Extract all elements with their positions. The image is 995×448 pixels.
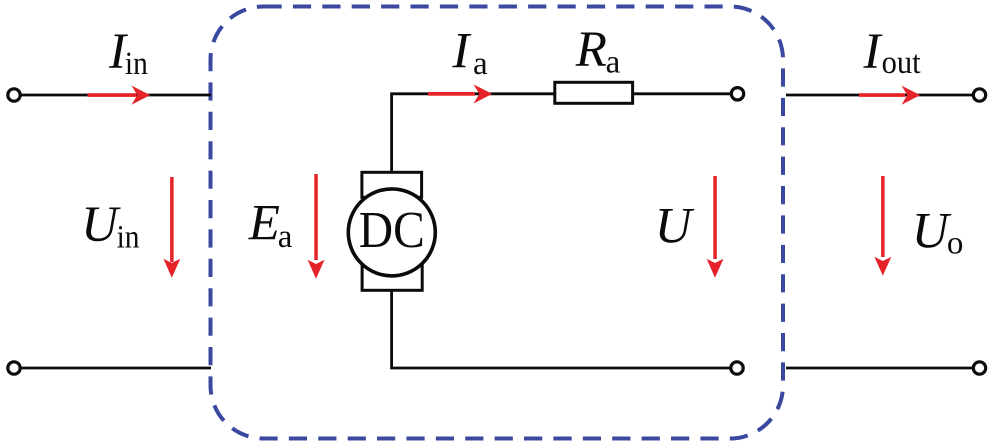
svg-text:I: I	[863, 24, 883, 80]
svg-text:DC: DC	[359, 202, 425, 259]
voltage arrow Uo	[874, 176, 891, 276]
terminal node: output bottom	[973, 362, 985, 374]
svg-text:a: a	[606, 45, 621, 81]
DC machine circle U1	[348, 189, 435, 276]
svg-text:in: in	[117, 220, 140, 256]
wire: bottom-left input wire	[21, 367, 212, 370]
wire: top-left input wire	[21, 94, 212, 97]
resistor Ra body	[555, 82, 633, 103]
svg-text:U: U	[81, 197, 121, 253]
terminal node: internal bottom right	[731, 362, 743, 374]
wire: internal top wire from DC machine to right terminal	[392, 94, 732, 174]
terminal node: output top	[973, 89, 985, 101]
dashed two-port network boundary box	[211, 7, 784, 439]
svg-text:E: E	[248, 196, 280, 252]
DC machine brush bottom	[362, 265, 422, 290]
svg-text:a: a	[278, 219, 293, 255]
terminal node: input bottom	[8, 362, 20, 374]
svg-text:a: a	[473, 46, 488, 82]
voltage arrow Ea	[308, 174, 325, 279]
current arrow Iout	[859, 86, 920, 105]
svg-text:o: o	[947, 226, 964, 262]
current arrow Iin	[88, 86, 151, 105]
wire: internal bottom wire from DC machine to right terminal	[392, 291, 731, 369]
svg-text:U: U	[655, 199, 695, 255]
DC machine brush top	[362, 172, 422, 197]
terminal node: input top	[8, 89, 20, 101]
svg-text:in: in	[125, 46, 148, 82]
svg-text:U: U	[912, 204, 952, 260]
svg-text:R: R	[575, 22, 607, 78]
current arrow Ia	[428, 84, 492, 103]
svg-text:I: I	[451, 23, 471, 79]
wire: top-right output wire	[786, 94, 974, 97]
terminal node: internal top right	[731, 88, 743, 100]
voltage arrow Uin	[163, 177, 180, 278]
svg-text:out: out	[882, 45, 921, 81]
wire: bottom-right output wire	[786, 367, 974, 370]
voltage arrow U	[707, 176, 724, 278]
